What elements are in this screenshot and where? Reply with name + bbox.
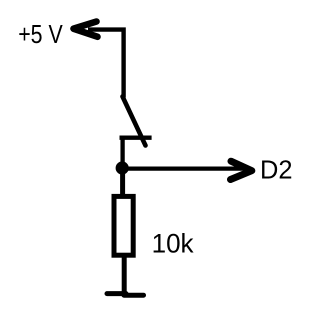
ground [107, 294, 144, 296]
svg-text:10k: 10k [152, 229, 194, 259]
switch S1 blade (diagonal) [123, 97, 146, 146]
svg-text:+5 V: +5 V [18, 19, 63, 49]
junction node [116, 161, 129, 174]
resistor R1 body [114, 196, 133, 255]
arrow into +5V net label [74, 22, 98, 37]
wire from junction to D2 arrow [122, 166, 246, 170]
switch S1 bottom contact bar [120, 136, 152, 140]
svg-text:D2: D2 [260, 155, 293, 185]
arrow to D2 [231, 161, 252, 179]
wire from junction to resistor top [120, 172, 125, 196]
wire from resistor bottom to ground [122, 255, 127, 294]
wire from switch bottom contact to junction [120, 138, 124, 168]
wire from +5V arrow to switch top contact [88, 30, 124, 98]
